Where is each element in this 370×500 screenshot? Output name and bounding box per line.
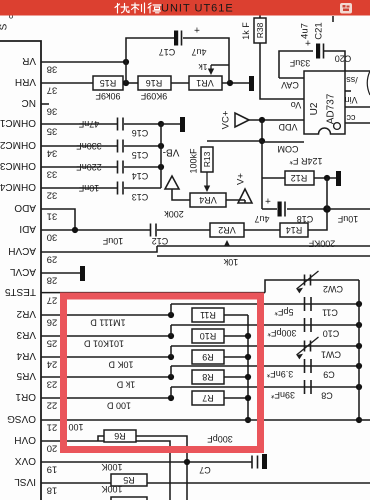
svg-text:90k9F: 90k9F [95,91,121,101]
power symbol VB- triangle [165,176,179,189]
svg-text:VC+: VC+ [220,110,231,129]
svg-text:3.9nF*: 3.9nF* [266,369,293,379]
svg-text:23: 23 [47,379,58,390]
svg-text:100 D: 100 D [106,400,131,410]
ground bar after VR1 [249,76,254,91]
stub up to cap row [170,325,172,336]
svg-text:19: 19 [47,464,58,475]
capacitor C18 wire [262,208,277,210]
pin 19 OVX wire [41,461,252,463]
svg-text:36: 36 [47,106,58,117]
svg-text:VR2: VR2 [16,308,36,319]
banner title text [115,3,161,13]
right bus dot C10 row [356,322,362,328]
svg-text:CW1: CW1 [321,349,341,359]
svg-text:C15: C15 [132,150,149,160]
ladder bus dot [245,333,251,339]
svg-text:33: 33 [47,169,58,180]
pin 37 wire to R15 [41,82,93,84]
svg-text:S: S [0,23,10,30]
power symbol VC+ triangle [235,113,249,127]
R8 right lead [224,376,248,378]
svg-text:CAV: CAV [281,80,299,90]
svg-text:5pF*: 5pF* [274,307,294,317]
svg-text:/ss: /ss [346,75,358,85]
resistor ladder right bus [247,315,249,420]
resistor R16 [138,76,171,90]
R6 branch wire [98,436,104,441]
svg-text:35: 35 [47,126,58,137]
resistor R7 [192,391,224,405]
potentiometer VR4 [190,193,226,207]
bottom bus to right edge [359,419,370,421]
junction dot VDD node [259,117,265,123]
svg-text:VRH: VRH [15,76,36,87]
svg-text:U2: U2 [309,102,320,115]
pin 31 ADO wire [41,209,75,230]
junction dot row R8 [168,374,174,380]
pin 23 wire [41,376,171,378]
pin 33 wire to C14 [41,166,117,168]
ladder bus dot [245,395,251,401]
svg-text:Vo: Vo [291,100,302,110]
svg-text:CW2: CW2 [323,284,343,294]
right bus dot CW1 row [356,343,362,349]
pin 34 wire to C15 [41,145,117,147]
resistor R15 [93,76,123,90]
svg-text:VR: VR [22,55,36,66]
junction dot row R9 [168,354,174,360]
svg-text:39nF*: 39nF* [271,390,296,400]
svg-text:NC: NC [22,97,36,108]
svg-text:4u7: 4u7 [299,23,310,39]
stub up to cap row [170,387,172,398]
wire VC+ to VDD [249,119,304,121]
svg-text:100K: 100K [101,462,122,472]
stub up to cap row [170,304,172,315]
wire C17 net [126,38,174,62]
U2 pin1 circle [334,123,341,130]
svg-text:300pF*: 300pF* [267,328,297,338]
svg-text:OVH: OVH [14,434,36,445]
pin 29 ACVH wire [41,246,157,252]
svg-text:OHMC3: OHMC3 [0,160,36,171]
svg-text:ADO: ADO [14,202,36,213]
svg-text:47nF: 47nF [78,119,99,129]
IC U1 main chip body edge [0,41,41,500]
junction dot row R10 [168,333,174,339]
svg-text:OR1: OR1 [15,391,36,402]
svg-text:220nF: 220nF [76,162,102,172]
svg-text:200k: 200k [164,209,184,219]
svg-text:28: 28 [47,275,58,286]
R6 right lead [136,436,187,500]
red title banner [0,0,370,16]
stub up to cap row [170,346,172,357]
svg-text:33uF: 33uF [289,58,310,68]
VB- bus vertical [160,124,162,188]
capacitor C7 [251,456,253,469]
resistor R12 [285,171,314,185]
capacitor C12 [150,224,152,237]
U2 pin cc wire [345,122,370,124]
VB- bus to ground wire [161,123,180,125]
capacitor row wire C10 [171,324,359,326]
svg-text:+: + [265,194,271,205]
svg-text:R13: R13 [202,151,212,167]
junction dot VB- bus pin 33 [158,164,164,170]
svg-text:R6: R6 [114,431,126,441]
pin 18 IVSL wire [41,482,370,484]
svg-text:22: 22 [47,400,58,411]
right edge arc [367,71,370,95]
R13 top wire [207,140,262,142]
pin 21 OVSG bottom bus wire [41,419,359,421]
svg-text:R8: R8 [202,372,214,382]
right bus dot C11 row [356,301,362,307]
svg-text:V+: V+ [235,173,246,185]
VR4 right lead [226,199,245,201]
svg-text:C7: C7 [199,465,211,475]
ground bar ACVL [80,266,85,281]
svg-text:C9: C9 [323,369,335,379]
R11 right lead [224,314,248,316]
svg-text:Vin: Vin [345,95,358,105]
resistor R9 [192,350,224,364]
svg-text:VR3: VR3 [16,329,36,340]
common bus wire upper [157,245,370,247]
svg-text:100K: 100K [101,484,122,494]
svg-text:C18: C18 [297,214,314,224]
svg-text:31: 31 [47,211,58,222]
svg-text:VR4: VR4 [16,350,36,361]
svg-text:R5: R5 [123,475,135,485]
U2 pin CAV wire [279,77,304,79]
wire VB- to VR4 [172,189,190,200]
svg-text:101K01 D: 101K01 D [83,338,124,348]
capacitor C8 39nF* [304,380,306,394]
right bus dot C8 row [356,384,362,390]
svg-text:IVSL: IVSL [14,476,36,487]
svg-text:VR2: VR2 [218,225,236,235]
svg-text:R11: R11 [200,310,216,320]
svg-text:38: 38 [47,64,58,75]
vertical wire R12 node to C18 node [326,178,328,209]
junction dot row R7 [168,395,174,401]
capacitor C9 3.9nF* [304,359,306,373]
svg-text:100: 100 [68,422,83,432]
resistor R38 vertical [259,14,261,18]
ladder bus bottom dot [245,417,251,423]
svg-text:C11: C11 [322,307,338,317]
svg-text:ACVL: ACVL [9,266,36,277]
pin 20 OVH wire [41,441,170,500]
svg-text:C17: C17 [159,47,176,57]
R12 right lead [314,177,336,179]
junction dot R13 node [259,138,265,144]
svg-text:+: + [194,23,200,34]
svg-text:C21: C21 [313,22,324,39]
wire to CW2 row [265,280,359,293]
svg-text:R14: R14 [286,225,303,235]
capacitor row wire CW1 [171,345,359,347]
svg-text:32: 32 [47,190,58,201]
svg-text:10uF: 10uF [102,236,123,246]
capacitor row wire C8 [171,386,359,388]
svg-text:VR5: VR5 [16,370,36,381]
svg-text:VR4: VR4 [199,195,217,205]
svg-text:TEST5: TEST5 [4,286,36,297]
wire C14 to VB- bus [124,166,161,168]
svg-text:VB-: VB- [163,146,180,157]
potentiometer VR2 [210,223,244,237]
svg-text:UNIT UT61E: UNIT UT61E [161,3,234,15]
svg-text:124R F*: 124R F* [289,156,323,166]
capacitor C15 330nF [117,140,119,153]
svg-text:1k F: 1k F [241,22,251,40]
svg-text:R7: R7 [202,393,214,403]
svg-text:20: 20 [47,443,58,454]
svg-text:OVX: OVX [15,455,36,466]
resistor R14 [280,223,308,237]
R38 lead to Vo [260,43,304,99]
svg-text:37: 37 [47,85,58,96]
svg-text:29: 29 [47,254,58,265]
svg-text:26: 26 [47,317,58,328]
svg-text:10K D: 10K D [108,359,134,369]
banner watermark icon [340,3,352,14]
wire R14 up to C18 node [308,209,327,230]
resistor R4 partial [111,497,147,500]
junction dot pin19/C7 net [184,459,190,465]
capacitor row wire C9 [171,365,359,367]
wire C20 to Vss pin [323,51,345,71]
svg-text:25: 25 [47,338,58,349]
wire vertical x=126 [125,62,127,83]
capacitor C20 33uF electrolytic [316,44,320,59]
svg-text:200KF: 200KF [308,238,335,248]
junction dot row R11 [168,312,174,318]
svg-text:C10: C10 [323,328,340,338]
svg-text:R9: R9 [202,352,214,362]
pin 36 NC stub [41,103,49,105]
U2 pin Vss wire [345,70,370,72]
capacitor C17 4u7 electrolytic [174,31,178,46]
svg-text:1M111 D: 1M111 D [90,317,126,327]
C21 stub [332,16,334,22]
VR2 wiper arrow [226,244,228,246]
capacitor C10 300pF* [304,318,306,332]
stub up to cap row [170,366,172,377]
capacitor C18 4u7 electrolytic [278,202,282,217]
wire C17 to VR1 wiper [183,38,229,83]
cap ladder right bus [358,280,360,420]
svg-text:300pF: 300pF [207,434,233,444]
R13 wiper arrow into VR4 [206,172,208,188]
wire C16 to VB- bus [124,123,161,125]
right bus bottom dot [356,417,362,423]
junction dots x=126 [123,59,129,65]
junction dot C18 node [323,205,331,213]
wire VR1 to ground [222,82,249,84]
pin 22 wire [41,397,171,399]
pin 32 wire to C13 [41,187,117,189]
svg-text:VR1: VR1 [196,78,214,88]
junction dot VB- bus pin 35 [158,121,164,127]
svg-text:R15: R15 [100,78,117,88]
pin 35 wire to C16 [41,123,117,125]
common bus wire lower [157,255,370,257]
capacitor C20 loop wire [279,51,313,78]
ground bar R12 [336,171,341,186]
svg-text:VDD: VDD [278,122,298,132]
svg-text:10nF: 10nF [78,183,99,193]
junction dot ADI/ADO [72,227,78,233]
svg-text:ADI: ADI [19,223,36,234]
svg-text:C12: C12 [152,236,169,246]
red highlight box [64,296,261,450]
svg-text:R16: R16 [146,78,163,88]
potentiometer VR1 [189,76,222,90]
svg-text:ACVH: ACVH [8,245,36,256]
R7 right lead [224,397,248,399]
svg-text:21: 21 [47,422,58,433]
variable capacitor CW2 [304,275,306,286]
wire R16 to VR1 [171,82,189,84]
svg-text:COM: COM [278,144,299,154]
svg-text:C8: C8 [321,390,333,400]
svg-text:10k: 10k [223,257,238,267]
U2 pin COM wire [262,141,304,143]
wire VR2 to R14 [244,229,280,231]
VR1 wiper arrow [211,64,229,66]
resistor R11 [192,308,224,322]
svg-text:100kF: 100kF [189,148,199,174]
U2 pin Vin wire [345,106,370,108]
ladder bus dot [245,374,251,380]
capacitor C16 47nF [117,118,119,131]
svg-text:C20: C20 [335,53,352,63]
svg-text:R38: R38 [255,22,265,38]
svg-text:OHMC2: OHMC2 [0,139,36,150]
svg-text:OHMC4: OHMC4 [0,181,36,192]
U2 NC stub [345,90,351,92]
svg-text:34: 34 [47,148,58,159]
resistor R8 [192,370,224,384]
resistor R10 [192,329,224,343]
capacitor C11 5pF* [304,297,306,311]
pin 30 ADI wire [41,229,150,231]
svg-text:R12: R12 [291,173,308,183]
ground bar C7 [262,454,267,469]
vertical supply wire x=262 [261,120,263,209]
svg-text:C14: C14 [132,171,149,181]
resistor R13 vertical [201,147,213,172]
svg-text:18: 18 [47,485,58,496]
op-amp U2 AD737 body [304,71,345,134]
wire R15 to R16 [123,82,138,84]
wire C15 to VB- bus [124,145,161,147]
junction dot VB- bus pin 34 [158,143,164,149]
junction dot VR1 right [227,80,233,86]
wire C13 to VB- bus [124,187,161,189]
svg-text:OVSG: OVSG [7,413,36,424]
R10 right lead [224,335,248,337]
resistor R5 [111,474,147,486]
svg-text:10uF: 10uF [337,214,358,224]
R9 right lead [224,356,248,358]
junction dot R12 [324,175,330,181]
R12 left lead [262,177,285,179]
svg-text:27: 27 [47,295,58,306]
svg-text:30: 30 [47,232,58,243]
svg-text:cc: cc [346,113,356,123]
svg-text:AD737: AD737 [326,93,337,124]
svg-text:4u7: 4u7 [254,214,269,224]
ladder bus dot [245,354,251,360]
pin 24 wire [41,356,171,358]
svg-text:R10: R10 [200,331,217,341]
variable capacitor CW1 [304,341,306,352]
wire C12 to VR2 [157,229,210,231]
pin 25 wire [41,335,171,337]
svg-text:1k: 1k [198,62,208,72]
pin 27 TEST5 wire [41,292,265,294]
svg-text:24: 24 [47,359,58,370]
resistor R6 [104,430,136,442]
wire C18 node to right edge [327,208,370,210]
svg-text:1k D: 1k D [116,379,135,389]
capacitor row wire C11 [171,303,359,305]
pin 38 wire [41,61,126,63]
pin 26 wire [41,314,171,316]
capacitor C14 220nF [117,161,119,174]
svg-text:4u7: 4u7 [191,47,206,57]
svg-text:330nF: 330nF [76,141,102,151]
right bus dot C9 row [356,363,362,369]
svg-text:C13: C13 [132,192,149,202]
power symbol V+ triangle [238,189,252,203]
wire C18 to node [287,208,327,210]
capacitor C13 10nF [117,182,119,195]
ground bar VB- bus [180,117,185,132]
svg-text:OHMC1: OHMC1 [0,117,36,128]
pin 28 ACVL wire [41,272,80,274]
svg-text:9K09F: 9K09F [140,91,167,101]
svg-text:C16: C16 [132,128,149,138]
